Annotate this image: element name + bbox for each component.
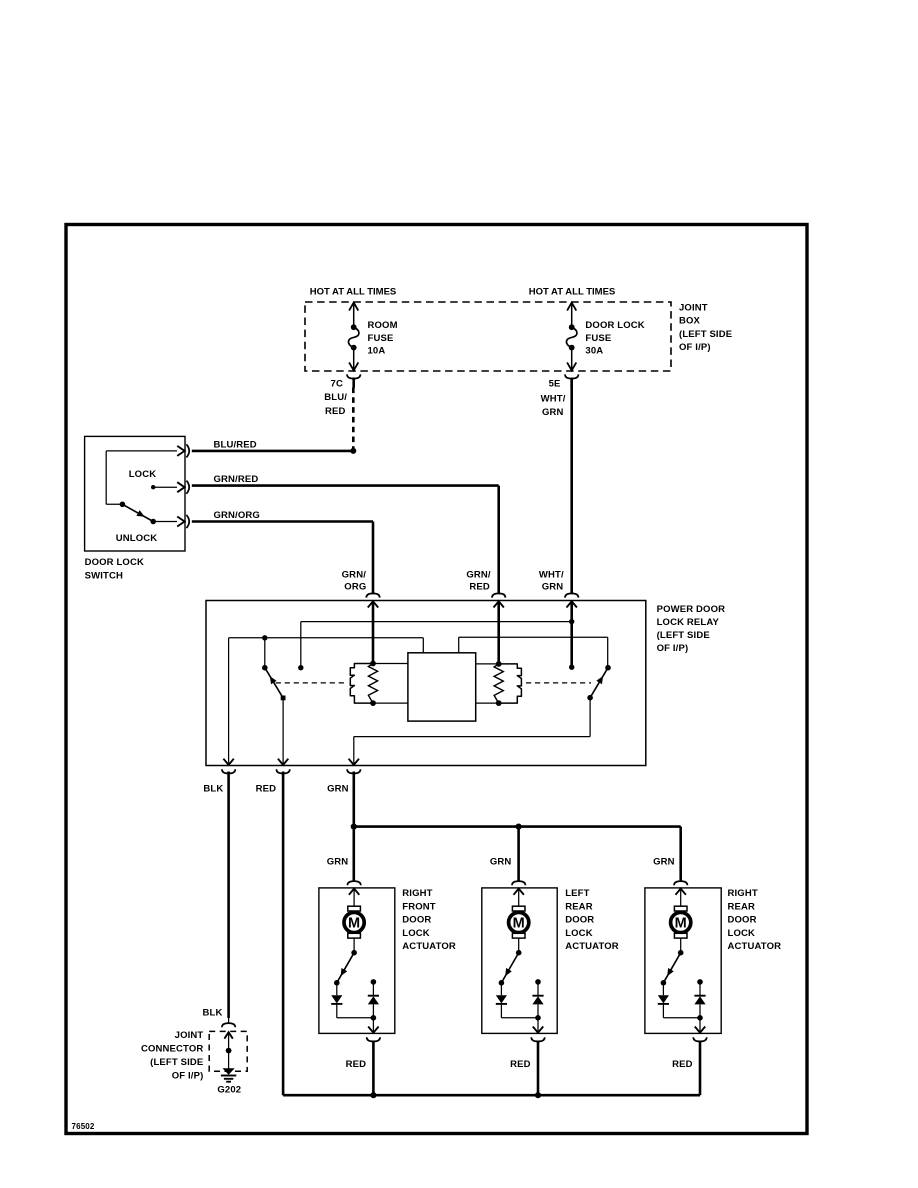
label GRN/ ORG (at relay)	[342, 570, 367, 593]
ground G202	[221, 1068, 236, 1082]
actuator 3 input connector	[674, 881, 687, 885]
wire RED (actuator 1)	[372, 1041, 375, 1095]
actuator 1 box	[319, 888, 395, 1034]
motor M (actuator 2)	[509, 906, 529, 938]
svg-text:WHT/: WHT/	[541, 394, 566, 405]
joint connector box (dashed)	[209, 1031, 247, 1071]
svg-text:GRN/RED: GRN/RED	[214, 474, 259, 485]
label WHT/ GRN (lower)	[539, 570, 564, 593]
svg-text:76502: 76502	[72, 1122, 95, 1131]
svg-text:FRONT: FRONT	[402, 901, 436, 912]
svg-text:RED: RED	[672, 1059, 693, 1070]
joint connector input connector	[222, 1016, 235, 1027]
svg-text:GRN/: GRN/	[342, 570, 367, 581]
svg-text:10A: 10A	[368, 345, 386, 356]
label JOINT CONNECTOR (LEFT SIDE OF I/P)	[141, 1030, 203, 1082]
svg-text:GRN: GRN	[542, 582, 564, 593]
label GRN/ RED (at relay)	[466, 570, 491, 593]
svg-text:M: M	[513, 916, 525, 932]
actuator 1 output arrow	[368, 1018, 378, 1033]
svg-text:DOOR LOCK: DOOR LOCK	[85, 557, 144, 568]
svg-text:M: M	[348, 916, 360, 932]
relay output connectors	[222, 769, 361, 773]
svg-text:FUSE: FUSE	[585, 333, 611, 344]
svg-text:(LEFT SIDE: (LEFT SIDE	[679, 329, 732, 340]
svg-text:HOT AT ALL TIMES: HOT AT ALL TIMES	[310, 287, 397, 298]
actuator 2 switch	[499, 938, 522, 986]
relay internal net: left top rail	[229, 635, 424, 668]
relay input arrows	[368, 601, 577, 607]
svg-text:RED: RED	[469, 582, 490, 593]
actuator 3 switch	[661, 938, 684, 986]
door lock switch box	[85, 436, 185, 551]
wire GRN vertical + bus	[351, 772, 681, 881]
svg-text:FUSE: FUSE	[368, 333, 394, 344]
svg-text:BLK: BLK	[203, 784, 223, 795]
switch internal wire to BLU/RED pin	[106, 446, 184, 504]
label RIGHT REAR DOOR LOCK ACTUATOR	[728, 888, 782, 952]
svg-text:LOCK: LOCK	[129, 469, 157, 480]
svg-text:OF I/P): OF I/P)	[657, 643, 689, 654]
svg-text:RED: RED	[510, 1059, 531, 1070]
diode (left, actuator 2)	[496, 983, 538, 1018]
relay BLK leg	[228, 638, 230, 765]
relay internal net: WHT/GRN to left switch contact	[298, 622, 572, 671]
diode (right, actuator 1)	[368, 979, 379, 1020]
actuator 1 switch	[334, 938, 357, 986]
relay output arrows	[223, 759, 359, 765]
relay internal net: right top rail	[459, 637, 608, 668]
svg-text:GRN: GRN	[327, 857, 349, 868]
svg-text:30A: 30A	[585, 345, 603, 356]
relay switch (left)	[262, 665, 286, 765]
svg-text:JOINT: JOINT	[175, 1030, 204, 1041]
actuator 2 output connector	[531, 1037, 544, 1041]
svg-text:(LEFT SIDE: (LEFT SIDE	[150, 1057, 203, 1068]
svg-text:LOCK: LOCK	[728, 928, 756, 939]
svg-text:LOCK RELAY: LOCK RELAY	[657, 617, 720, 628]
wire RED (actuator 2)	[537, 1041, 540, 1095]
actuator 3 input arrow	[676, 889, 686, 907]
diode (right, actuator 3)	[694, 979, 705, 1020]
relay body	[408, 653, 476, 721]
relay input connectors	[366, 593, 578, 597]
diode (left, actuator 3)	[658, 983, 700, 1018]
svg-text:DOOR: DOOR	[565, 915, 594, 926]
svg-text:(LEFT SIDE: (LEFT SIDE	[657, 630, 710, 641]
switch LOCK contact	[151, 482, 185, 492]
svg-text:5E: 5E	[549, 379, 561, 390]
wire GRN/ORG	[192, 522, 373, 595]
actuator 3 box	[645, 888, 721, 1034]
wire RED vertical + bottom bus	[283, 772, 700, 1096]
svg-text:ACTUATOR: ACTUATOR	[728, 941, 782, 952]
switch output connectors	[186, 444, 189, 528]
svg-text:OF I/P): OF I/P)	[172, 1071, 204, 1082]
page border frame	[66, 225, 807, 1134]
wire WHT/GRN inside relay	[569, 601, 574, 670]
svg-text:CONNECTOR: CONNECTOR	[141, 1043, 203, 1054]
svg-text:POWER DOOR: POWER DOOR	[657, 604, 726, 615]
svg-text:LOCK: LOCK	[565, 928, 593, 939]
mechanical link (right, dashed)	[526, 682, 591, 684]
svg-text:UNLOCK: UNLOCK	[116, 533, 158, 544]
label LEFT REAR DOOR LOCK ACTUATOR	[565, 888, 619, 952]
svg-text:SWITCH: SWITCH	[85, 571, 123, 582]
relay switch (right)	[354, 665, 611, 765]
svg-text:LOCK: LOCK	[402, 928, 430, 939]
svg-text:GRN/: GRN/	[466, 570, 491, 581]
svg-text:GRN/ORG: GRN/ORG	[214, 510, 260, 521]
wire BLU/RED dashed vertical	[352, 388, 355, 452]
wire BLU/RED horizontal	[192, 448, 356, 454]
svg-text:JOINT: JOINT	[679, 303, 708, 314]
actuator 2 output arrow	[533, 1018, 543, 1033]
svg-text:M: M	[675, 916, 687, 932]
svg-text:RIGHT: RIGHT	[402, 888, 432, 899]
relay coil (left)	[350, 661, 408, 706]
label ROOM FUSE 10A	[368, 320, 398, 356]
switch lever (to UNLOCK)	[122, 504, 153, 521]
actuator 2 input arrow	[514, 889, 524, 907]
svg-text:BOX: BOX	[679, 316, 701, 327]
actuator 2 box	[482, 888, 557, 1034]
connector pin 5E	[565, 374, 578, 387]
fuse DOOR LOCK FUSE 30A	[566, 303, 577, 371]
svg-text:WHT/: WHT/	[539, 570, 564, 581]
svg-text:BLU/: BLU/	[324, 392, 347, 403]
svg-text:OF I/P): OF I/P)	[679, 342, 711, 353]
wire RED (actuator 3)	[699, 1041, 702, 1095]
svg-text:ORG: ORG	[344, 582, 366, 593]
svg-text:REAR: REAR	[728, 901, 756, 912]
actuator 2 input connector	[512, 881, 525, 885]
junction dot RED bus actuator 1	[370, 1092, 376, 1098]
actuator 3 output arrow	[695, 1018, 705, 1033]
svg-text:DOOR LOCK: DOOR LOCK	[585, 320, 644, 331]
wire GRN/ORG inside relay	[372, 601, 375, 663]
svg-text:G202: G202	[217, 1085, 241, 1096]
label BLU/ RED (vertical wire)	[324, 392, 347, 417]
svg-text:GRN: GRN	[327, 784, 349, 795]
actuator 3 output connector	[693, 1037, 706, 1041]
svg-text:REAR: REAR	[565, 901, 593, 912]
svg-text:RED: RED	[325, 406, 346, 417]
connector pin 7C	[347, 374, 360, 387]
junction dot RED bus actuator 2	[535, 1092, 541, 1098]
svg-text:7C: 7C	[331, 379, 343, 390]
switch pivot	[120, 502, 126, 508]
label JOINT BOX (LEFT SIDE OF I/P)	[679, 303, 732, 354]
label RIGHT FRONT DOOR LOCK ACTUATOR	[402, 888, 456, 952]
label DOOR LOCK SWITCH	[85, 557, 144, 582]
label WHT/ GRN (upper)	[541, 394, 566, 419]
svg-text:ACTUATOR: ACTUATOR	[565, 941, 619, 952]
svg-text:GRN: GRN	[490, 857, 512, 868]
svg-text:BLU/RED: BLU/RED	[214, 439, 257, 450]
svg-text:GRN: GRN	[653, 857, 675, 868]
svg-text:RIGHT: RIGHT	[728, 888, 758, 899]
svg-text:RED: RED	[346, 1059, 367, 1070]
wire WHT/GRN vertical	[570, 378, 573, 595]
label DOOR LOCK FUSE 30A	[585, 320, 644, 356]
svg-text:BLK: BLK	[203, 1008, 223, 1019]
svg-text:RED: RED	[256, 784, 277, 795]
actuator 1 input connector	[347, 881, 360, 885]
motor M (actuator 3)	[671, 906, 691, 938]
joint connector arrow + wire	[224, 1032, 232, 1068]
fuse ROOM FUSE 10A	[348, 303, 359, 371]
mechanical link (left, dashed)	[276, 682, 346, 684]
svg-text:LEFT: LEFT	[565, 888, 589, 899]
switch UNLOCK contact	[150, 517, 184, 527]
diode (left, actuator 1)	[331, 983, 373, 1018]
relay coil (right)	[476, 661, 522, 706]
actuator 1 output connector	[367, 1037, 380, 1041]
svg-text:DOOR: DOOR	[402, 915, 431, 926]
svg-text:DOOR: DOOR	[728, 915, 757, 926]
wire GRN/RED inside relay	[497, 601, 500, 664]
svg-text:HOT AT ALL TIMES: HOT AT ALL TIMES	[529, 287, 616, 298]
wire GRN/RED	[192, 486, 499, 595]
power door lock relay box	[206, 601, 646, 766]
motor M (actuator 1)	[344, 906, 364, 938]
actuator 1 input arrow	[349, 889, 359, 907]
svg-text:ROOM: ROOM	[368, 320, 398, 331]
svg-text:GRN: GRN	[542, 407, 564, 418]
diode (right, actuator 2)	[532, 979, 543, 1020]
label POWER DOOR LOCK RELAY (LEFT SIDE OF I/P)	[657, 604, 726, 654]
svg-text:ACTUATOR: ACTUATOR	[402, 941, 456, 952]
joint box (dashed)	[305, 302, 671, 371]
wire BLK vertical	[227, 772, 230, 1019]
